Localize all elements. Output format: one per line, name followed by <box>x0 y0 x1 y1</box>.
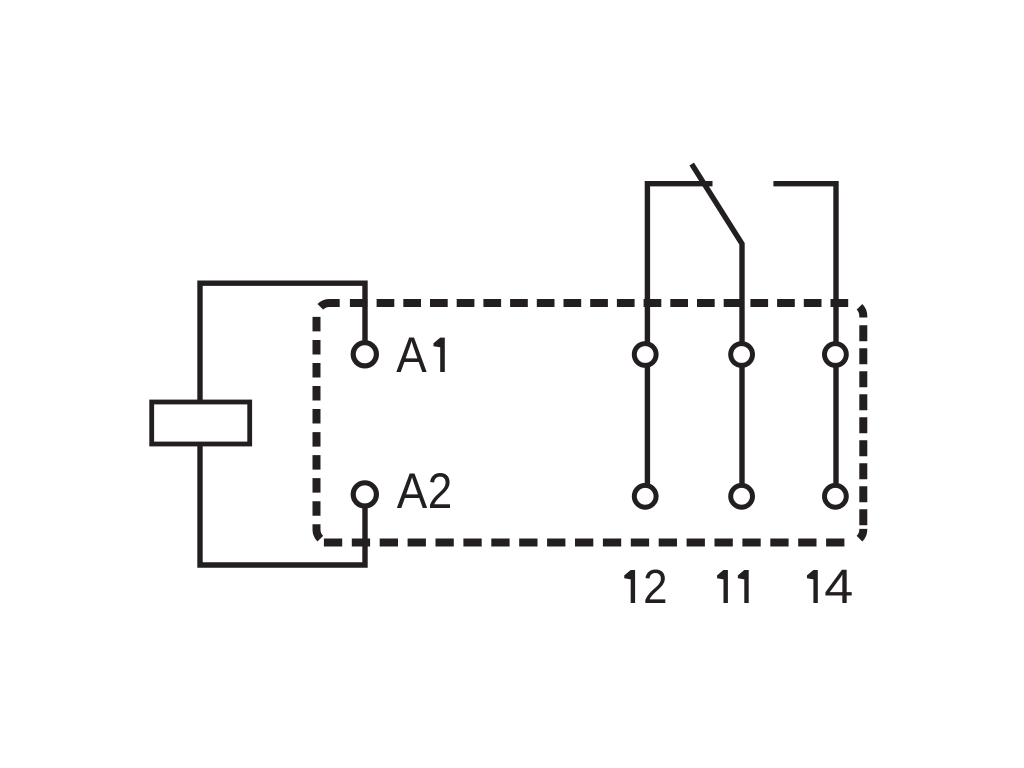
svg-text:A: A <box>397 463 428 519</box>
border corner top-right <box>859 307 863 318</box>
wire pin 11 between terminals <box>739 367 744 485</box>
label A1 <box>396 327 445 383</box>
wire pin 12 between terminals <box>645 367 650 485</box>
border corner top-left <box>320 303 339 307</box>
wire coil loop bottom: A2 down, left, up to coil <box>200 443 365 565</box>
border right edge <box>859 325 867 525</box>
terminal 11 top <box>731 344 753 366</box>
svg-text:2: 2 <box>428 463 453 519</box>
terminal 12 bottom <box>634 485 656 507</box>
wire pin 12 fixed contact: top horizontal and vertical down <box>647 184 712 343</box>
label 14 <box>807 561 853 614</box>
svg-text:A: A <box>396 327 427 383</box>
border left edge <box>313 317 321 524</box>
terminal A1 <box>353 343 376 366</box>
label 12 <box>624 561 667 614</box>
terminal 14 top <box>825 344 847 366</box>
border bottom edge <box>324 539 846 547</box>
label A2 <box>397 463 453 519</box>
terminal 12 top <box>634 344 656 366</box>
svg-text:2: 2 <box>643 561 667 614</box>
wire pin 14 fixed contact: top horizontal and vertical down <box>773 184 836 343</box>
coil (relay coil rectangle) <box>152 402 250 444</box>
terminal 14 bottom <box>825 485 847 507</box>
svg-text:4: 4 <box>824 561 853 614</box>
label 11 <box>717 570 749 603</box>
border corner bottom-left <box>317 524 321 538</box>
wire pin 14 between terminals <box>833 367 838 485</box>
terminal A2 <box>353 483 376 506</box>
wire coil loop top: A1 up, left, down to coil <box>200 283 365 403</box>
border top edge <box>350 299 848 307</box>
relay body outline (dashed rounded rectangle) <box>317 303 864 543</box>
switch arm (movable contact from pin 11) <box>692 164 742 343</box>
border corner bottom-right <box>859 529 863 539</box>
terminal 11 bottom <box>731 485 753 507</box>
